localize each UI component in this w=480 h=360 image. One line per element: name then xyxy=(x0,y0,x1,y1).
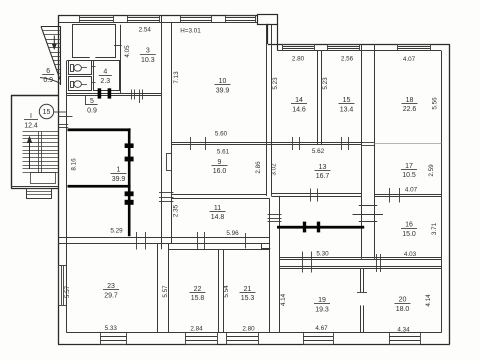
svg-text:13: 13 xyxy=(319,164,327,171)
dim 5.54 xyxy=(223,285,230,298)
room 10 label xyxy=(215,78,231,94)
svg-text:7.13: 7.13 xyxy=(173,71,180,84)
svg-text:19.3: 19.3 xyxy=(315,306,329,313)
svg-text:39.9: 39.9 xyxy=(216,87,230,94)
window left WL in room 23 xyxy=(58,265,67,306)
svg-text:5.96: 5.96 xyxy=(226,230,239,237)
wall between rooms 23 and 22 xyxy=(168,244,170,333)
svg-text:11: 11 xyxy=(214,205,221,212)
wall A vertical xyxy=(161,15,163,249)
door ticks corridor to room 19 xyxy=(303,252,312,273)
wall between rooms 14 and 15 xyxy=(318,51,322,145)
room 9 label xyxy=(212,159,228,175)
window bottom W3 under room 21 xyxy=(227,333,259,345)
svg-text:4.05: 4.05 xyxy=(124,45,131,58)
window bottom W2 under room 22 xyxy=(185,333,218,345)
room 6 label xyxy=(42,68,54,84)
rooms 22 21 top wall xyxy=(169,249,270,251)
svg-text:4.07: 4.07 xyxy=(405,186,418,193)
stairwell up arrow xyxy=(27,136,32,170)
svg-text:4.14: 4.14 xyxy=(280,293,287,306)
dim 5.23 room 14 xyxy=(272,77,279,90)
door posts to room 5 xyxy=(98,88,112,98)
svg-text:5.57: 5.57 xyxy=(162,285,169,298)
svg-text:0.9: 0.9 xyxy=(43,77,53,84)
svg-text:2.80: 2.80 xyxy=(292,56,305,63)
window bottom W5 under room 20 xyxy=(389,333,421,345)
dim 2.86 xyxy=(255,161,262,174)
dim 4.14 room 20 xyxy=(425,294,432,307)
svg-text:2.56: 2.56 xyxy=(341,56,354,63)
svg-text:10.3: 10.3 xyxy=(141,57,155,64)
svg-text:4.14: 4.14 xyxy=(425,294,432,307)
svg-text:4: 4 xyxy=(103,69,107,76)
window top W8b over room 10 right xyxy=(225,15,256,23)
outer wall bottom xyxy=(58,333,450,345)
dim 4.05 xyxy=(124,45,131,58)
svg-text:10.5: 10.5 xyxy=(402,172,416,179)
svg-text:2.84: 2.84 xyxy=(190,326,203,333)
svg-text:3.02: 3.02 xyxy=(270,163,277,176)
stairwell flight divider xyxy=(39,132,42,173)
svg-text:1: 1 xyxy=(117,167,121,174)
entrance steps below stairwell xyxy=(27,189,52,199)
room 11 label xyxy=(210,205,226,221)
room 1 black right wall xyxy=(128,128,131,236)
room 4 label xyxy=(99,69,112,85)
svg-text:3.71: 3.71 xyxy=(431,222,438,235)
stairwell treads xyxy=(23,132,59,173)
room 21 label xyxy=(240,286,256,302)
dim 8.16 xyxy=(71,158,78,171)
room 2 walls xyxy=(73,25,116,59)
svg-text:5.57: 5.57 xyxy=(64,285,71,298)
door rungs through walls A B xyxy=(159,193,174,202)
svg-text:16: 16 xyxy=(405,222,413,229)
rooms 19 20 top wall xyxy=(279,267,441,269)
wc stall door ticks xyxy=(91,67,96,83)
dim 7.13 xyxy=(173,71,180,84)
door rungs in column wall xyxy=(353,206,384,222)
room 15 label xyxy=(339,97,355,113)
room 19 label xyxy=(314,297,330,313)
svg-text:5.23: 5.23 xyxy=(322,77,329,90)
faint wall between rooms 18 and 17 xyxy=(375,143,442,145)
wall B vertical xyxy=(171,23,173,244)
svg-text:5.23: 5.23 xyxy=(272,77,279,90)
outer wall left side xyxy=(59,15,67,344)
stairwell landing xyxy=(31,173,56,184)
svg-text:13.4: 13.4 xyxy=(340,106,354,113)
svg-text:12.4: 12.4 xyxy=(24,122,38,129)
svg-text:4.67: 4.67 xyxy=(315,325,328,332)
room 11 right wall xyxy=(269,198,271,332)
wc stall 1 xyxy=(69,61,92,75)
svg-text:0.9: 0.9 xyxy=(87,107,97,114)
svg-text:21: 21 xyxy=(244,286,252,293)
door rungs corridor left wall xyxy=(268,215,282,222)
wc block top wall xyxy=(67,60,121,62)
room 17 label xyxy=(401,163,417,179)
svg-text:5.33: 5.33 xyxy=(105,325,118,332)
room 4 walls xyxy=(94,61,120,91)
window top W8 over room 10 xyxy=(180,15,212,23)
lobby walls xyxy=(58,117,72,128)
door posts on corridor black wall xyxy=(303,222,320,233)
svg-text:5.60: 5.60 xyxy=(215,131,228,138)
svg-text:2.3: 2.3 xyxy=(100,78,110,85)
svg-text:20: 20 xyxy=(399,297,407,304)
room 1 black top wall xyxy=(68,128,131,131)
door ticks on hall top wall xyxy=(132,90,143,104)
svg-text:5.62: 5.62 xyxy=(312,148,325,155)
svg-text:5.61: 5.61 xyxy=(217,149,230,156)
door posts on room 1 right wall xyxy=(125,143,134,204)
room 14 label xyxy=(291,97,307,113)
svg-text:18.0: 18.0 xyxy=(396,306,410,313)
door ticks room 17 bottom xyxy=(390,188,400,203)
room 5 label xyxy=(87,98,97,114)
dim 5.56 xyxy=(432,97,439,110)
wall between rooms 19 and 20 xyxy=(357,269,367,333)
svg-text:9: 9 xyxy=(218,159,222,166)
wall between rooms 10-9 and 14-13 column xyxy=(267,25,272,196)
basement stairs down arrow xyxy=(52,36,57,51)
door rect in wall B xyxy=(167,154,172,171)
outer wall top-left section xyxy=(58,16,258,23)
svg-text:2.80: 2.80 xyxy=(242,326,255,333)
circled 15 label xyxy=(39,104,66,118)
room 5 boundary bracket xyxy=(85,96,98,105)
dim 5.57 room 22 xyxy=(162,285,169,298)
svg-text:4.07: 4.07 xyxy=(403,56,416,63)
dim 3.71 xyxy=(431,222,438,235)
svg-text:8.16: 8.16 xyxy=(71,158,78,171)
thick wall column x360-375 xyxy=(361,44,374,259)
room I stairwell label xyxy=(24,113,38,129)
window top W7 over room 3 xyxy=(127,15,160,23)
svg-text:14.6: 14.6 xyxy=(292,106,306,113)
room 11 top wall xyxy=(171,198,269,200)
outer wall step verticals xyxy=(268,24,278,51)
corridor bottom wall xyxy=(279,258,441,260)
dim 2.35 xyxy=(172,204,179,217)
svg-text:39.9: 39.9 xyxy=(112,176,126,183)
room 1 black bottom wall xyxy=(68,185,131,188)
svg-text:18: 18 xyxy=(406,97,414,104)
svg-text:Н=3.01: Н=3.01 xyxy=(180,28,201,35)
pier box at room 21 top corner xyxy=(261,244,270,249)
hall south wall band xyxy=(58,238,269,244)
door ticks room 13 bottom xyxy=(311,189,318,202)
svg-text:14.8: 14.8 xyxy=(211,214,225,221)
svg-text:5.30: 5.30 xyxy=(316,251,329,258)
svg-text:4.34: 4.34 xyxy=(397,326,410,333)
door ticks hall to room 23 xyxy=(137,232,146,250)
room 20 label xyxy=(395,297,411,313)
hall top wall below wc xyxy=(67,94,162,96)
door ticks corridor to room 20 xyxy=(377,254,381,272)
window top W11 over room 18 xyxy=(398,44,431,51)
stairwell outer walls xyxy=(11,95,58,188)
svg-text:15.3: 15.3 xyxy=(241,295,255,302)
room 23 right wall xyxy=(157,244,159,333)
svg-text:6: 6 xyxy=(46,68,50,75)
room 22 label xyxy=(190,286,206,302)
svg-text:5.29: 5.29 xyxy=(110,227,123,234)
svg-text:3: 3 xyxy=(146,48,150,55)
room 16 label xyxy=(401,222,417,238)
room 3 label xyxy=(140,48,156,64)
room 1 label xyxy=(111,167,127,183)
svg-text:2.86: 2.86 xyxy=(255,161,262,174)
wall between rooms 10-14-15 and 9-13 xyxy=(171,143,361,145)
svg-text:5.54: 5.54 xyxy=(223,285,230,298)
room 3 left wall xyxy=(120,25,122,94)
svg-text:15.8: 15.8 xyxy=(191,295,205,302)
window top W6 over room 2 xyxy=(79,15,114,23)
svg-text:29.7: 29.7 xyxy=(104,292,118,299)
door ticks room 14 bottom xyxy=(293,137,300,150)
wc stall 2 xyxy=(69,77,92,91)
window top W9 over room 14 xyxy=(283,44,315,51)
niche line room 2/3 xyxy=(114,45,122,47)
dim 5.57 room 23 xyxy=(64,285,71,298)
svg-text:17: 17 xyxy=(405,163,413,170)
outer wall step corner box xyxy=(258,15,278,25)
svg-text:5: 5 xyxy=(90,98,94,105)
room 18 label xyxy=(402,97,418,113)
corridor left wall xyxy=(279,196,281,333)
room 13 label xyxy=(315,164,331,180)
dim 2.59 xyxy=(428,164,435,177)
wall below rooms 9 13 17 xyxy=(171,194,441,197)
outer wall top-right section xyxy=(268,45,450,51)
svg-text:22: 22 xyxy=(194,286,202,293)
outer wall right side xyxy=(442,44,450,344)
window bottom W4 under room 19 xyxy=(303,333,334,345)
door arc at basement stairs xyxy=(40,78,61,84)
svg-text:15: 15 xyxy=(43,109,51,116)
basement stairs triangle xyxy=(41,27,61,86)
window bottom W1 under room 23 xyxy=(100,333,127,345)
svg-text:22.6: 22.6 xyxy=(403,106,417,113)
svg-text:15.0: 15.0 xyxy=(402,231,416,238)
wall between rooms 22 and 21 xyxy=(219,249,224,333)
svg-text:16.7: 16.7 xyxy=(316,173,330,180)
window top W10 over room 15 xyxy=(328,44,360,51)
svg-text:5.56: 5.56 xyxy=(432,97,439,110)
dim 3.02 xyxy=(270,163,277,176)
svg-text:2.59: 2.59 xyxy=(428,164,435,177)
door ticks room 11 bottom xyxy=(198,232,246,250)
svg-text:2.54: 2.54 xyxy=(139,27,152,34)
door ticks room 9 top xyxy=(191,137,206,150)
room 23 label xyxy=(103,283,119,299)
svg-text:2.35: 2.35 xyxy=(172,204,179,217)
dim 4.14 room 19 xyxy=(280,293,287,306)
svg-text:16.0: 16.0 xyxy=(213,168,227,175)
corridor black south wall xyxy=(277,226,364,229)
door ticks room 15 bottom xyxy=(342,137,349,150)
svg-text:4.03: 4.03 xyxy=(404,251,417,258)
dim 5.23 room 15 xyxy=(322,77,329,90)
